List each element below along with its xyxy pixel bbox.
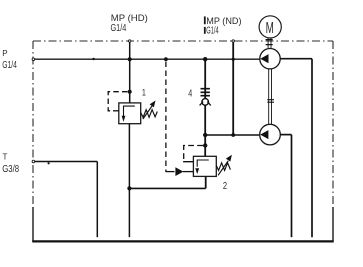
relief valve V1 pilot dashed line: [108, 92, 127, 111]
relief valve V2 pilot b horizontal: [166, 171, 175, 173]
valve 1 internal arrowhead: [122, 116, 126, 122]
svg-text:1: 1: [142, 88, 146, 99]
coupling bars pump1-pump2: [267, 100, 274, 103]
relief valve 2 body: [193, 156, 216, 176]
valve 1 spring: [141, 110, 158, 118]
wire pump 2 outlet down to tank: [291, 135, 293, 238]
tank bottom line: [32, 240, 334, 242]
junction dot drain: [127, 186, 131, 190]
junction dot P x HD line: [128, 57, 132, 61]
relief valve V2 pilot a entry solid: [184, 160, 194, 163]
wire valve 1 drain down: [128, 124, 130, 238]
relief valve V2 pilot b arrowhead: [175, 167, 183, 176]
svg-text:MP (ND): MP (ND): [206, 16, 241, 26]
shaft pump1 to pump2: [269, 69, 272, 125]
wire ND vertical: P line down to check valve: [204, 59, 206, 98]
tank wall left (solid): [32, 207, 34, 241]
tick bar left of MP (ND): [204, 16, 206, 24]
svg-text:4: 4: [188, 89, 192, 100]
junction dot pilot b on P line: [164, 57, 168, 61]
port MP HD circle on border: [129, 40, 131, 42]
junction small dot on P line: [92, 58, 94, 60]
port P circle on border: [32, 58, 35, 61]
wire T line down to tank: [96, 162, 98, 238]
svg-text:T: T: [3, 153, 8, 162]
wire ND vertical below check valve to valve 2: [204, 105, 206, 156]
valve 1 internal flow path: [124, 106, 135, 116]
relief valve V2 pilot a dashed (from tap): [184, 146, 203, 162]
wire ND branch vertical: [232, 42, 234, 135]
junction dot ND inlet: [203, 133, 207, 137]
relief valve 1 body: [119, 103, 141, 124]
valve 1 adjust arrowhead: [150, 101, 156, 108]
check valve 4 spring bars: [201, 89, 210, 96]
svg-text:P: P: [2, 49, 7, 58]
enclosure border right (dash-dot): [332, 41, 334, 208]
enclosure border left (dash-dot): [32, 41, 34, 208]
svg-text:G1/4: G1/4: [206, 26, 219, 37]
svg-text:G3/8: G3/8: [2, 164, 19, 175]
check valve 4 seat left: [200, 102, 204, 106]
wire P supply line: [35, 58, 260, 60]
svg-text:MP (HD): MP (HD): [111, 13, 148, 23]
svg-text:M: M: [266, 20, 274, 37]
relief valve V2 pilot b entry solid: [183, 171, 193, 173]
check valve 4 ball: [202, 99, 209, 106]
port T circle on border: [32, 160, 35, 163]
junction dot P x ND line: [203, 57, 207, 61]
wire pump 1 outlet down to tank: [311, 59, 313, 238]
valve 2 adjust arrowhead: [226, 155, 232, 162]
tick bar left of G1/4 ND: [204, 27, 206, 34]
pump 2 flow triangle: [260, 130, 268, 139]
wire pump 1 outlet: [280, 58, 312, 60]
junction small dot on T line: [48, 162, 50, 164]
wire T line horizontal: [35, 161, 97, 163]
motor M circle: [259, 16, 281, 38]
check valve 4 seat right: [207, 102, 211, 106]
svg-text:2: 2: [223, 181, 228, 192]
pump 2 circle (ND): [260, 124, 281, 145]
junction dot P x branch: [232, 58, 235, 61]
junction dot valve 2 pilot tap: [203, 143, 207, 147]
coupling bars motor-pump1: [266, 40, 273, 45]
svg-text:G1/4: G1/4: [111, 23, 127, 34]
valve 2 internal flow path: [197, 160, 209, 167]
junction dot suction x branch: [231, 133, 235, 137]
valve 2 internal arrowhead: [195, 168, 199, 174]
port ND branch circle on border: [232, 40, 234, 42]
wire valve 2 drain down: [205, 176, 207, 188]
pump 1 circle (HD): [260, 49, 280, 69]
valve 1 adjust arrow shaft: [143, 105, 153, 119]
tank wall right (solid): [332, 207, 334, 241]
shaft motor to pump 1: [268, 38, 271, 49]
valve 2 adjust arrow shaft: [218, 161, 228, 176]
wire pump 2 outlet: [280, 134, 291, 136]
valve 2 spring: [216, 163, 230, 171]
enclosure border top (dash-dot): [33, 40, 333, 42]
wire MP HD vertical down to valve 1: [129, 43, 131, 103]
junction dot valve 1 pilot tap: [128, 90, 132, 94]
relief valve V1 pilot entry solid: [113, 110, 119, 112]
pump 1 flow triangle: [260, 54, 268, 63]
wire drain horizontal valve2 to valve1: [129, 187, 205, 189]
wire pump 2 suction line: [205, 134, 260, 136]
relief valve V2 pilot b dashed vertical: [165, 62, 167, 173]
svg-text:G1/4: G1/4: [2, 60, 17, 71]
